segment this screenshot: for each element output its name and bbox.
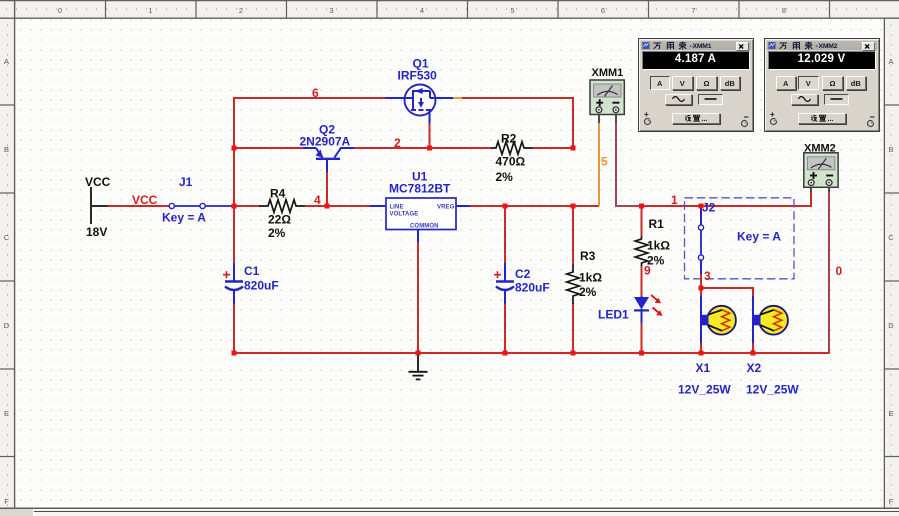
svg-text:Key = A: Key = A <box>162 211 206 225</box>
wire U1 common down to ground <box>417 230 419 354</box>
svg-text:VCC: VCC <box>132 193 158 207</box>
junction R3 top at x573 y206 <box>571 204 576 209</box>
switch J2 <box>698 207 703 274</box>
svg-text:2%: 2% <box>579 285 597 299</box>
resistor R3 1k vertical <box>567 264 580 304</box>
junction Q1 gate at x429 y148 <box>427 146 432 151</box>
svg-text:B: B <box>4 145 9 154</box>
junction ground at x418 y353 <box>416 351 421 356</box>
wire node4 segment <box>305 205 371 207</box>
svg-text:XMM1: XMM1 <box>592 67 624 79</box>
svg-text:J1: J1 <box>179 175 193 189</box>
wire Q2 base down x327 <box>326 159 328 206</box>
wire net VCC to R4 <box>234 205 260 207</box>
svg-text:C1: C1 <box>244 264 260 278</box>
svg-text:X2: X2 <box>747 361 762 375</box>
svg-text:XMM2: XMM2 <box>804 143 836 155</box>
wire bottom net horizontal <box>234 352 829 354</box>
multimeter icon XMM1 <box>590 80 624 115</box>
svg-text:0: 0 <box>58 6 62 15</box>
svg-text:VCC: VCC <box>85 175 111 189</box>
svg-text:1kΩ: 1kΩ <box>579 271 602 285</box>
svg-text:4: 4 <box>314 193 321 207</box>
svg-text:...: ... <box>828 115 834 122</box>
svg-text:R3: R3 <box>580 249 596 263</box>
junction net2 R2 at x573 y148 <box>571 146 576 151</box>
resistor R1 1k vertical <box>635 236 648 266</box>
svg-text:F: F <box>4 497 9 506</box>
junction node 3 at x701 y288 <box>699 286 704 291</box>
junction LED1 bottom at x641 y353 <box>639 351 644 356</box>
svg-text:2N2907A: 2N2907A <box>300 135 351 149</box>
svg-text:MC7812BT: MC7812BT <box>389 182 451 196</box>
capacitor C2 820uF <box>496 263 514 304</box>
svg-text:F: F <box>889 497 894 506</box>
lamp X1 12V 25W <box>700 296 736 343</box>
svg-text:820uF: 820uF <box>515 281 550 295</box>
svg-text:2%: 2% <box>268 226 286 240</box>
svg-text:R1: R1 <box>649 217 665 231</box>
transistor Q1 IRF530 MOSFET <box>405 85 437 116</box>
svg-text:R4: R4 <box>270 187 286 201</box>
svg-text:XMM2: XMM2 <box>818 43 837 50</box>
junction X1 bottom at x701 y353 <box>699 351 704 356</box>
svg-text:1kΩ: 1kΩ <box>647 239 670 253</box>
svg-text:470Ω: 470Ω <box>496 155 526 169</box>
junction J2 top at x701 y206 <box>699 204 704 209</box>
svg-text:12V_25W: 12V_25W <box>746 383 799 397</box>
resistor R2 470ohm <box>491 142 533 155</box>
svg-text:8: 8 <box>782 6 786 15</box>
wire R3 vertical x573 <box>572 206 574 353</box>
svg-text:9: 9 <box>644 264 651 278</box>
svg-text:C2: C2 <box>515 267 531 281</box>
svg-text:X1: X1 <box>696 361 711 375</box>
svg-text:18V: 18V <box>86 225 107 239</box>
pin U1 line input <box>370 205 386 207</box>
svg-text:1: 1 <box>148 6 152 15</box>
svg-text:7: 7 <box>691 6 695 15</box>
junction net VCC J1 at x234 y206 <box>232 204 237 209</box>
svg-text:3: 3 <box>704 269 711 283</box>
resistor R4 22ohm <box>259 200 305 213</box>
svg-text:4: 4 <box>420 6 424 15</box>
svg-text:VOLTAGE: VOLTAGE <box>390 212 419 218</box>
svg-text:Key = A: Key = A <box>737 230 781 244</box>
svg-text:C: C <box>4 233 10 242</box>
transistor Q2 2N2907A PNP <box>316 148 341 159</box>
VCC source V1 18V <box>90 187 108 224</box>
svg-text:E: E <box>4 409 9 418</box>
multimeter window XMM1 <box>638 38 754 132</box>
svg-text:XMM1: XMM1 <box>692 43 711 50</box>
svg-text:B: B <box>888 145 893 154</box>
svg-text:A: A <box>888 57 893 66</box>
junction R1 top at x641 y206 <box>639 204 644 209</box>
capacitor C1 plus sign <box>223 271 230 278</box>
multimeter window XMM2 <box>764 38 880 132</box>
pin U1 output <box>456 205 470 207</box>
wire R1 LED1 vertical x641.5 <box>641 206 643 353</box>
lamp X2 12V 25W <box>752 296 788 343</box>
svg-text:1: 1 <box>671 193 678 207</box>
svg-text:LED1: LED1 <box>598 308 629 322</box>
wire net2 horizontal y148 <box>234 147 573 149</box>
capacitor C2 plus sign <box>494 271 501 278</box>
junction X2 bottom at x753 y353 <box>751 351 756 356</box>
svg-text:J2: J2 <box>702 201 716 215</box>
junction net2 at x234 y148 <box>232 146 237 151</box>
wire net0 XMM2 minus down to bottom <box>828 186 830 354</box>
svg-text:22Ω: 22Ω <box>268 213 291 227</box>
junction bottom left corner x234 y353 <box>232 351 237 356</box>
svg-text:C: C <box>888 233 894 242</box>
svg-text:820uF: 820uF <box>244 279 279 293</box>
svg-text:2: 2 <box>239 6 243 15</box>
switch J2 dashed selection box <box>685 198 795 279</box>
wire C2 vertical x505 <box>504 206 506 353</box>
multimeter icon XMM2 <box>804 153 838 188</box>
wire orange net5 up to XMM1 plus <box>598 115 600 206</box>
svg-text:6: 6 <box>601 6 605 15</box>
svg-text:D: D <box>4 321 10 330</box>
svg-text:VREG: VREG <box>437 205 455 211</box>
wire J2 to lamps node3 <box>700 274 754 353</box>
wire XMM1 minus down <box>615 115 642 207</box>
svg-text:E: E <box>888 409 893 418</box>
svg-text:R2: R2 <box>501 132 517 146</box>
svg-text:3: 3 <box>329 6 333 15</box>
capacitor C1 820uF <box>225 263 243 304</box>
svg-text:0: 0 <box>836 264 843 278</box>
svg-text:A: A <box>4 57 9 66</box>
ground symbol <box>409 353 428 379</box>
svg-text:IRF530: IRF530 <box>398 69 438 83</box>
junction node 4 at x327 y206 <box>325 204 330 209</box>
wire Q1 gate down x429.5 <box>429 112 431 148</box>
svg-text:5: 5 <box>601 155 608 169</box>
svg-text:12V_25W: 12V_25W <box>678 383 731 397</box>
svg-text:5: 5 <box>510 6 514 15</box>
voltage regulator U1 MC7812BT box <box>386 198 456 230</box>
wire net1 to XMM2 plus <box>642 186 812 207</box>
svg-text:2: 2 <box>394 136 401 150</box>
svg-text:6: 6 <box>312 86 319 100</box>
svg-text:D: D <box>888 321 894 330</box>
wire VCC net from source to J1 <box>108 205 169 207</box>
LED1 emission arrows <box>651 295 663 316</box>
diode LED1 <box>634 296 649 323</box>
switch J1 <box>169 203 234 208</box>
wire U1 out to C2 node <box>470 205 599 207</box>
junction C2 bottom at x505 y353 <box>503 351 508 356</box>
svg-text:2%: 2% <box>496 170 514 184</box>
svg-text:LINE: LINE <box>390 205 404 211</box>
wire top net6 horizontal <box>233 97 574 149</box>
svg-text:...: ... <box>702 115 708 122</box>
junction R3 bottom at x573 y353 <box>571 351 576 356</box>
junction C2 top at x505 y206 <box>503 204 508 209</box>
wire left vertical x234 <box>233 97 235 354</box>
svg-text:COMMON: COMMON <box>410 224 439 230</box>
